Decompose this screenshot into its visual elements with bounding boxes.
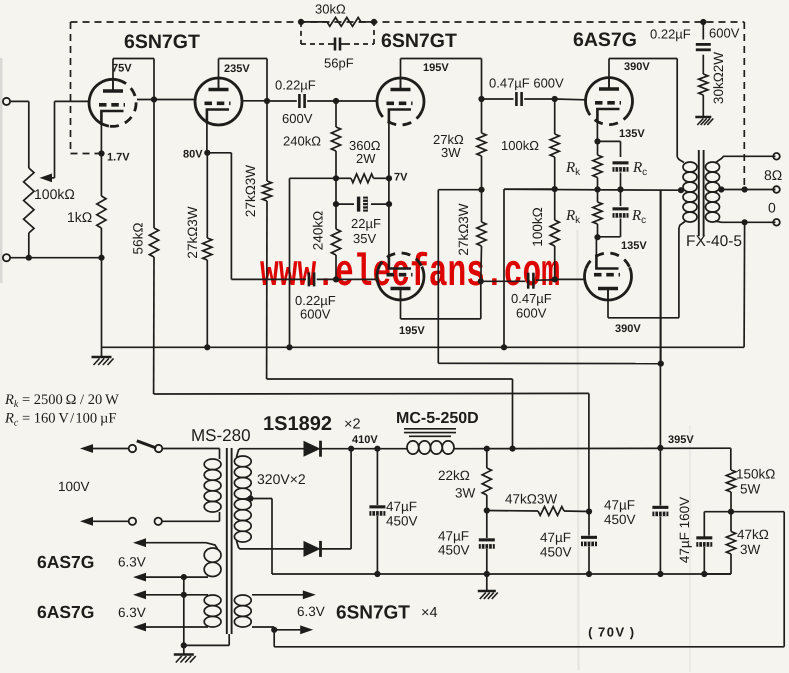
svg-text:22µF: 22µF (351, 216, 381, 231)
svg-text:6SN7GT: 6SN7GT (381, 30, 457, 52)
capacitor C6 0.47&#181;F (481, 280, 526, 282)
junction heater a2 (181, 574, 187, 580)
wire 100k mid to ground (504, 188, 555, 190)
svg-text:450V: 450V (540, 545, 572, 560)
svg-text:56kΩ: 56kΩ (131, 223, 146, 255)
svg-text:450V: 450V (604, 512, 636, 527)
ground zobel (695, 116, 711, 119)
B+ line 394 (154, 392, 589, 395)
wire HV top to D1 (237, 449, 304, 457)
svg-text:100kΩ: 100kΩ (34, 186, 75, 202)
svg-text:6SN7GT: 6SN7GT (336, 603, 410, 624)
resistor R14 30k&#937;2W (699, 74, 708, 95)
resistor R8 240k&#937; (335, 204, 337, 229)
dashed 56p branch (300, 22, 302, 44)
svg-text:47kΩ: 47kΩ (737, 527, 769, 542)
svg-text:47µF: 47µF (438, 529, 469, 544)
wire node B to ground (290, 177, 337, 179)
transformer T1 core (698, 150, 700, 236)
resistor R11 100k&#937; (554, 99, 556, 134)
wire V2 plate right stub (242, 100, 267, 102)
B+ sub line 363 (438, 362, 661, 364)
svg-text:Rk = 2500 Ω / 20 W: Rk = 2500 Ω / 20 W (4, 392, 119, 410)
wire V1 plate to top (112, 59, 114, 91)
junction cap A top (374, 446, 380, 452)
junction heater c2 (271, 627, 277, 633)
junction capC bus (586, 571, 592, 577)
junction capD bus (657, 571, 663, 577)
junction R9 bottom (478, 187, 484, 193)
tube V4 6SN7GT-d (377, 267, 424, 300)
junction HV center tap (247, 495, 253, 501)
svg-text:47µF: 47µF (540, 530, 571, 545)
junction node B (333, 175, 339, 181)
resistor R15 22k&#937;3W (486, 449, 488, 468)
svg-text:3W: 3W (740, 542, 761, 557)
resistor Rk upper (597, 141, 599, 155)
node 1.7V dot (98, 150, 104, 156)
svg-text:600V: 600V (709, 26, 740, 41)
potentiometer VR1 100k&#937; (24, 168, 34, 233)
wire 80V to C3 (207, 152, 231, 154)
svg-text:6.3V: 6.3V (297, 604, 325, 619)
wire secondary tap (721, 189, 775, 191)
svg-text:135V: 135V (621, 240, 647, 252)
T2 6.3V winding a (204, 548, 221, 562)
capacitor C9 47&#181;F450V (376, 449, 378, 505)
wire heater common (183, 577, 185, 654)
svg-text:35V: 35V (353, 231, 376, 246)
svg-text:320V×2: 320V×2 (257, 471, 306, 487)
svg-text:75V: 75V (112, 63, 132, 75)
junction 135V upper (594, 138, 600, 144)
junction pot bottom (26, 255, 32, 261)
capacitor C10 47&#181;F450V (486, 511, 488, 539)
capacitor C13 47&#181;F160V (696, 536, 712, 539)
wire heater c2 (252, 626, 274, 628)
svg-text:30kΩ: 30kΩ (315, 2, 346, 17)
ground rail (102, 346, 745, 348)
svg-text:1kΩ: 1kΩ (67, 209, 92, 225)
junction nodeB-gnd (286, 344, 292, 350)
svg-text:FX-40-5: FX-40-5 (686, 233, 742, 250)
wire secondary bottom (745, 221, 776, 223)
svg-text:240kΩ: 240kΩ (283, 134, 321, 149)
wire node E to V4 grid (336, 278, 377, 280)
svg-text:MS-280: MS-280 (191, 426, 251, 445)
wire to ground rail (101, 258, 103, 348)
resistor R12 100k&#937; (554, 189, 556, 220)
input terminal J1 (3, 98, 10, 105)
wire HV tap to bus (251, 498, 273, 500)
svg-text:0.22µF: 0.22µF (275, 78, 316, 93)
svg-text:3W: 3W (455, 486, 476, 501)
svg-text:Rk: Rk (565, 160, 581, 178)
speaker terminal 0 (773, 219, 780, 226)
tube V1 6SN7GT-a (89, 79, 118, 126)
wire HV bottom to D2 (237, 541, 304, 549)
wire C6 to V6 grid (555, 278, 585, 280)
PSU ground (486, 574, 488, 591)
junction capE bus (701, 571, 707, 577)
svg-text:0.47µF 600V: 0.47µF 600V (489, 76, 564, 91)
junction C4-cathode (386, 201, 392, 207)
resistor R10 27k&#937;3W (481, 190, 483, 222)
svg-text:Rc: Rc (632, 160, 647, 178)
svg-text:7V: 7V (394, 172, 408, 184)
junction divider node (728, 509, 734, 515)
svg-text:30kΩ2W: 30kΩ2W (711, 52, 726, 104)
junction capA bus (374, 571, 380, 577)
node 80V dot (204, 150, 210, 156)
tube V6 6AS7G-b (584, 267, 631, 300)
svg-text:450V: 450V (438, 543, 470, 558)
svg-text:0.47µF: 0.47µF (511, 291, 552, 306)
svg-text:5W: 5W (740, 482, 761, 497)
scan edge smudge (0, 58, 3, 283)
input terminal J2 (3, 254, 10, 261)
svg-text:MC-5-250D: MC-5-250D (396, 410, 479, 427)
wire B+ vertical (659, 190, 661, 448)
T2 core (226, 448, 228, 634)
capacitor C12 47&#181;F450V (659, 448, 661, 506)
junction feedback takeoff (742, 186, 748, 192)
wire wiper to V1 grid (55, 100, 91, 102)
svg-text:1.7V: 1.7V (107, 152, 130, 164)
junction V3 plate node (478, 96, 484, 102)
svg-text:2W: 2W (356, 151, 376, 166)
ground symbol main (101, 347, 103, 357)
svg-text:47µF 160V: 47µF 160V (677, 497, 692, 563)
T2 6.3V winding b (204, 595, 221, 606)
svg-text:27kΩ3W: 27kΩ3W (243, 165, 258, 217)
resistor R6 240k&#937; (335, 101, 337, 127)
junction secondary tap (718, 186, 724, 192)
junction primary center tap (678, 187, 684, 193)
capacitor C7 56pF (330, 43, 334, 45)
PSU top rail right (454, 447, 731, 450)
resistor R5 27k&#937;3W (266, 101, 268, 181)
capacitor C11 47&#181;F450V (588, 512, 590, 536)
dashed feedback right drop (743, 22, 745, 190)
junction node A (333, 98, 339, 104)
heater arrow b2 (133, 623, 146, 632)
capacitor C3 0.22&#181;F (308, 272, 311, 286)
speaker terminal 8ohm-top (773, 153, 780, 160)
svg-text:( 70V ): ( 70V ) (584, 625, 636, 640)
wire ladder to B+ (438, 189, 481, 191)
svg-text:395V: 395V (668, 434, 694, 446)
svg-text:0.22µF: 0.22µF (650, 27, 691, 42)
junction FB left (298, 19, 304, 25)
svg-text:Rc = 160 V / 100 µF: Rc = 160 V / 100 µF (4, 411, 116, 429)
wire node A to V3 grid (336, 100, 378, 102)
scan crease artifact 1 (578, 230, 579, 670)
svg-text:600V: 600V (516, 306, 547, 321)
capacitor C5 0.47&#181;F (482, 98, 514, 100)
T2 6.3V winding c (234, 595, 251, 606)
transformer T1 primary (683, 162, 697, 172)
junction R4 ground (204, 344, 210, 350)
diode D2 1S1892 (304, 541, 321, 557)
tube V3 6SN7GT-c (377, 78, 424, 111)
junction node D (333, 201, 339, 207)
capacitor C4 22&#181;F (336, 203, 354, 205)
svg-text:6AS7G: 6AS7G (573, 29, 637, 51)
switch S1a (129, 445, 136, 452)
tube V2 6SN7GT-b (195, 78, 242, 125)
diode D1 1S1892 (304, 441, 321, 457)
wire secondary 0 to rail (743, 222, 746, 347)
svg-text:6.3V: 6.3V (118, 605, 146, 620)
node 7V dot (386, 175, 392, 181)
wiper of VR1 (54, 101, 56, 177)
svg-text:47µF: 47µF (386, 499, 417, 514)
capacitor Rc lower (620, 190, 622, 207)
capacitor C2 0.22&#181;F (267, 100, 297, 102)
junction 512 join (509, 446, 515, 452)
svg-text:80V: 80V (183, 149, 203, 161)
dashed feedback left drop (70, 22, 72, 154)
tube V5 6AS7G (586, 78, 633, 113)
junction V2 plate node (264, 98, 270, 104)
wire switch to primary (162, 448, 219, 450)
svg-text:100kΩ: 100kΩ (501, 138, 539, 153)
junction R2 bottom (98, 255, 104, 261)
junction R12 bottom (552, 276, 558, 282)
wire cathode mid bus (504, 188, 681, 191)
heater arrow a1 (133, 538, 146, 547)
speaker terminal 8ohm (773, 186, 780, 193)
heater arrow c2 (274, 629, 303, 631)
resistor R16 47k&#937;3W (487, 510, 538, 513)
wire 70V line (731, 511, 784, 513)
junction heater b1 (181, 592, 187, 598)
svg-text:Rc: Rc (631, 208, 646, 226)
svg-text:47kΩ3W: 47kΩ3W (505, 492, 557, 507)
junction secondary 0 (742, 219, 748, 225)
svg-text:6AS7G: 6AS7G (37, 552, 94, 572)
svg-text:6.3V: 6.3V (118, 555, 146, 570)
resistor R4 27k&#937;3W (206, 153, 208, 238)
junction 100k-gnd (501, 344, 507, 350)
svg-text:390V: 390V (624, 61, 650, 73)
wire node B down (335, 178, 337, 204)
svg-text:3W: 3W (441, 145, 461, 160)
switch S1b (129, 518, 136, 525)
junction Rk bus (594, 186, 600, 192)
heater arrow b1 (133, 590, 146, 599)
junction capB bus (484, 571, 490, 577)
svg-text:600V: 600V (300, 307, 331, 322)
resistor R17 150k&#937;5W (726, 470, 735, 492)
svg-text:195V: 195V (423, 62, 449, 74)
resistor R18 47k&#937;3W (730, 512, 732, 532)
junction D2 rail (348, 446, 354, 452)
PSU top rail left (351, 448, 407, 450)
svg-text:410V: 410V (352, 434, 378, 446)
svg-text:27kΩ3W: 27kΩ3W (456, 203, 471, 255)
junction R11 bottom (552, 186, 558, 192)
AC line arrow bottom (80, 517, 93, 526)
wire center tap B+ (660, 190, 662, 363)
B+ line 379 (267, 378, 513, 380)
svg-text:600V: 600V (282, 111, 313, 126)
wire V2 cathode (206, 122, 208, 153)
capacitor Rc upper (598, 140, 621, 142)
resistor Rk lower (597, 190, 599, 203)
svg-text:56pF: 56pF (324, 56, 354, 71)
junction node A2 (484, 507, 490, 513)
wire input-bottom (10, 257, 101, 259)
transformer T1 secondary (706, 162, 720, 172)
svg-text:Rk: Rk (565, 208, 581, 226)
junction B+ 363 (658, 361, 664, 367)
junction node B2 (586, 508, 592, 514)
svg-text:0: 0 (768, 200, 776, 216)
heater arrow c1 (252, 594, 303, 596)
svg-text:390V: 390V (615, 323, 641, 335)
junction Rc bus (617, 186, 623, 192)
wire V6 cathode up (595, 237, 597, 258)
junction B+ takeoff (657, 445, 663, 451)
junction FB right (371, 19, 377, 25)
capacitor C8 0.22&#181;F zobel (702, 22, 704, 40)
resistor R3 56k&#937; (153, 100, 155, 229)
dashed feedback top line (71, 21, 745, 23)
wire input-top (10, 100, 29, 102)
wire V3 plate to top (400, 59, 402, 90)
svg-text:450V: 450V (386, 514, 418, 529)
wire shield to gnd (184, 644, 229, 646)
svg-text:8Ω: 8Ω (764, 167, 782, 183)
svg-text:×4: ×4 (421, 605, 438, 621)
wire V4 plate down (400, 289, 402, 319)
T2 primary 100V winding (204, 459, 221, 470)
wire V5 plate to top (608, 59, 610, 89)
svg-text:1S1892: 1S1892 (263, 413, 332, 435)
svg-text:22kΩ: 22kΩ (438, 468, 470, 483)
junction R10 bottom (478, 278, 484, 284)
svg-text:135V: 135V (619, 128, 645, 140)
svg-text:240kΩ: 240kΩ (311, 211, 326, 250)
wire S1b to primary (162, 520, 220, 522)
junction 135V lower (594, 234, 600, 240)
choke L1 MC-5-250D (407, 441, 419, 454)
svg-text:6AS7G: 6AS7G (37, 602, 94, 622)
wire C5 to V5 grid (555, 98, 586, 101)
wire V1-V2 coupling (137, 99, 195, 101)
resistor R2 1k&#937; (100, 124, 102, 196)
wire V6 plate down (607, 289, 609, 318)
svg-text:195V: 195V (399, 325, 425, 337)
svg-text:235V: 235V (224, 63, 250, 75)
svg-text:100V: 100V (58, 479, 90, 494)
wire V5 cathode (596, 122, 598, 142)
T2 HV winding 320Vx2 (234, 456, 251, 467)
junction node E (333, 276, 339, 282)
svg-text:150kΩ: 150kΩ (736, 467, 775, 482)
svg-text:47µF: 47µF (604, 498, 635, 513)
resistor R7 360&#937;2W (336, 177, 351, 179)
wire common cathode (388, 122, 390, 257)
junction plate/56k (151, 96, 157, 102)
junction zobel (700, 19, 706, 25)
junction heater gnd node (181, 642, 187, 648)
wire divider to capE (704, 511, 731, 513)
ground T2 (174, 653, 194, 656)
resistor R13 30k&#937; (301, 21, 327, 23)
scan crease artifact 2 (689, 425, 691, 672)
junction C5 right (552, 96, 558, 102)
svg-text:100kΩ: 100kΩ (530, 207, 545, 246)
junction choke out (484, 446, 490, 452)
svg-text:×2: ×2 (344, 417, 361, 433)
svg-text:6SN7GT: 6SN7GT (124, 31, 200, 53)
AC line arrow top (80, 444, 93, 453)
heater arrow a2 (133, 573, 146, 582)
resistor R9 27k&#937;3W (481, 99, 483, 133)
wire V2 plate to top (218, 59, 220, 90)
svg-text:27kΩ3W: 27kΩ3W (185, 206, 200, 258)
